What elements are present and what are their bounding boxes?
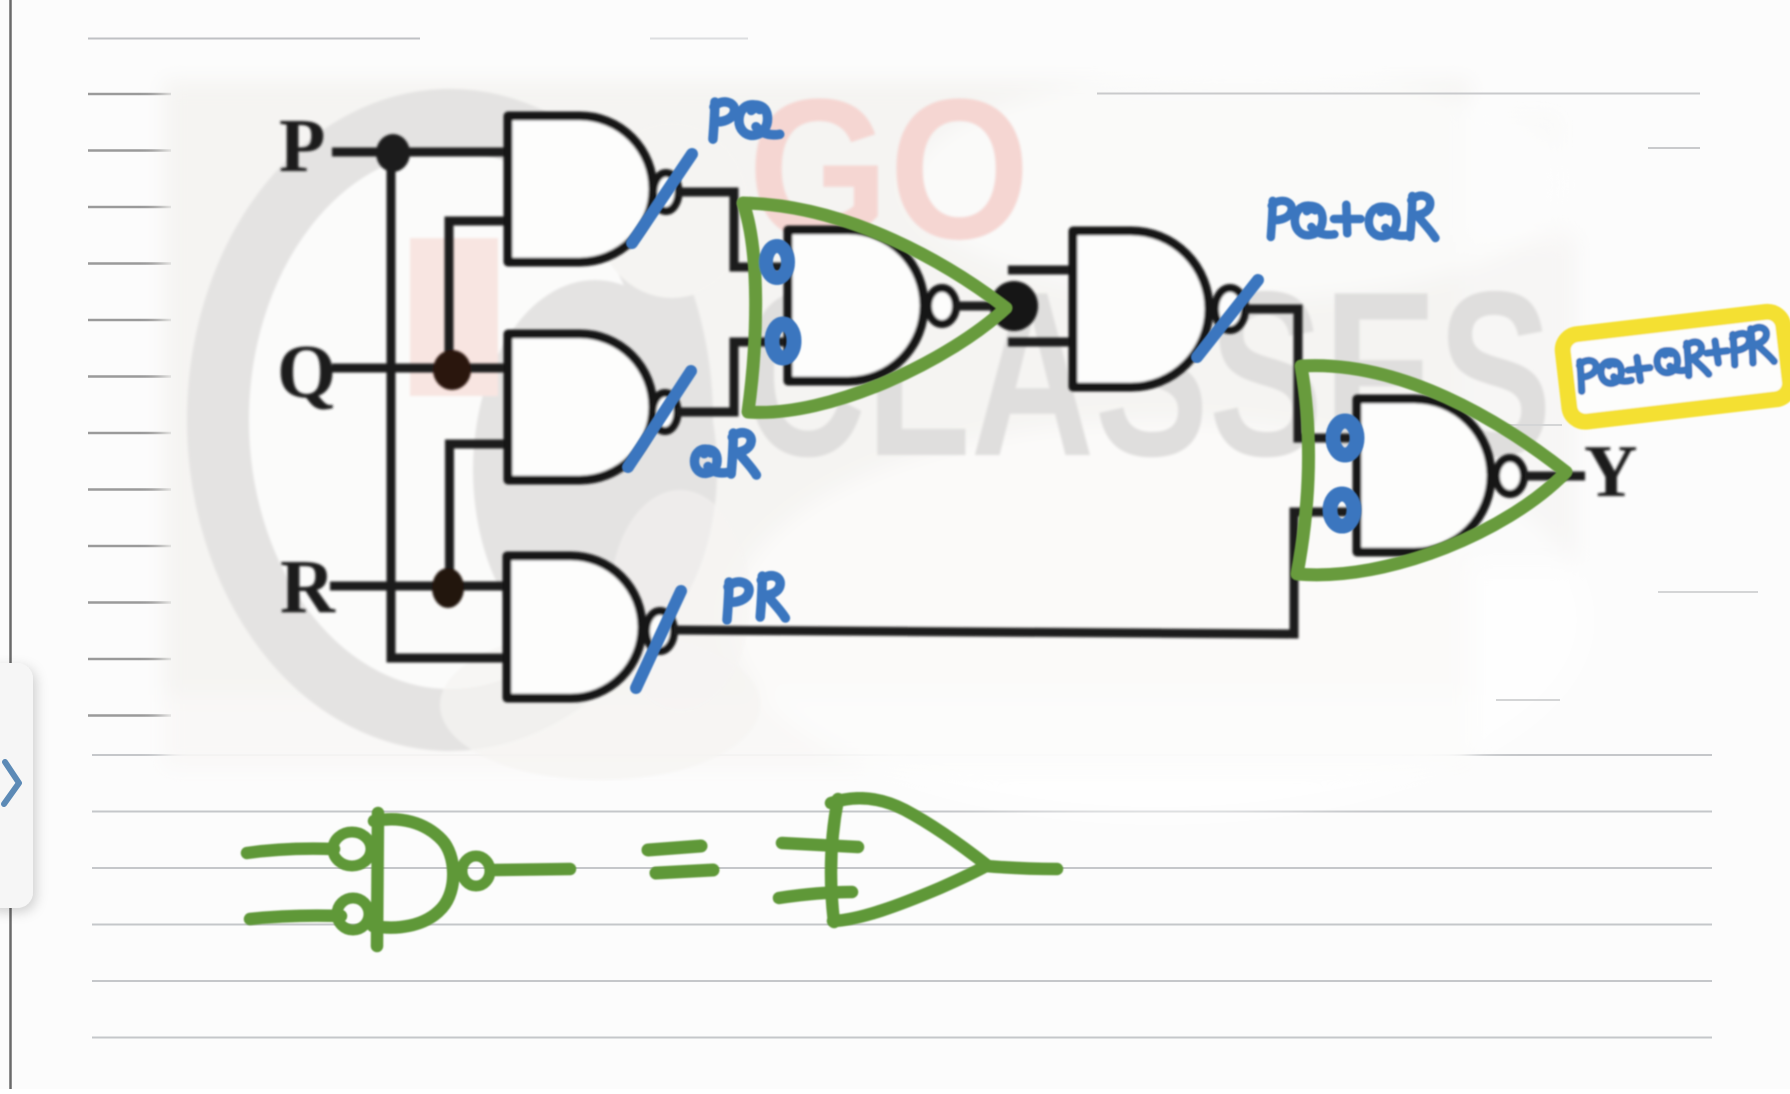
- wire junction to U5 lower input: [1008, 338, 1073, 347]
- svg-text:P: P: [279, 104, 325, 188]
- wire input Q: [332, 364, 508, 373]
- nand gate U4 (second level): [788, 230, 924, 381]
- annotation blue dot U4 lower input: [772, 324, 794, 358]
- nand gate U1 (P NAND Q): [508, 116, 653, 262]
- node R junction: [432, 568, 464, 608]
- annotation blue dot U6 upper input: [1333, 421, 1357, 455]
- svg-text:Y: Y: [1584, 431, 1637, 513]
- watermark logo center blob: [473, 280, 717, 660]
- page left edge line: [9, 0, 12, 1089]
- nand gate U3 (P NAND R): [507, 556, 642, 698]
- annotation blue slash on U1 bubble: [632, 154, 692, 243]
- wire junction to U5 upper input: [1008, 266, 1073, 275]
- scanned photo background: [163, 70, 1590, 820]
- wire Q junction up to U1 lower input: [449, 221, 508, 368]
- annotation blue slash on U3 bubble: [636, 591, 681, 688]
- annotation blue slash on U5 bubble: [1197, 280, 1258, 357]
- annotation text PQ: [713, 102, 735, 139]
- wire R junction up to U2 lower input: [450, 444, 509, 586]
- wire U1 output to U4 upper input: [677, 192, 788, 267]
- nand gate U2 (Q NAND R): [508, 334, 653, 480]
- svg-text:R: R: [280, 545, 336, 629]
- annotation blue dot U4 upper input: [766, 246, 788, 278]
- annotation text QR: [695, 449, 727, 473]
- node P junction: [376, 134, 410, 172]
- annotation blue slash on U2 bubble: [628, 371, 691, 467]
- wire U6 output to Y: [1525, 472, 1585, 481]
- nand gate U6 (output gate): [1357, 399, 1491, 552]
- annotation green loop around U4: [743, 203, 1006, 412]
- annotation text PQ+QR: [1271, 201, 1292, 237]
- wire U3 output PR to U6 lower input: [674, 512, 1357, 634]
- wire U2 output to U4 lower input: [677, 342, 788, 412]
- sketch equivalent NAND with inverted inputs: [247, 813, 570, 946]
- annotation green loop around U6: [1297, 366, 1566, 575]
- sketch equals sign: [648, 846, 713, 873]
- sidebar toggle card: [0, 663, 33, 908]
- annotation text PR: [727, 582, 749, 620]
- sketch OR gate: [779, 798, 1057, 922]
- sidebar toggle chevron: [4, 762, 19, 804]
- wire input P: [332, 148, 508, 157]
- annotation blue dot U6 lower input: [1330, 494, 1354, 526]
- faint ruled fragments over photo: [1097, 94, 1700, 149]
- wire P vertical to U3 lower input: [391, 155, 507, 658]
- nand gate U5 (inverter): [1073, 231, 1209, 387]
- wire U4 bubble to junction dot: [955, 302, 1013, 311]
- wire input R: [330, 582, 507, 591]
- wire U5 output down to U6 upper input: [1245, 309, 1357, 438]
- node U4 output junction dot: [990, 281, 1038, 331]
- left margin tick dashes: [88, 94, 171, 716]
- watermark logo pink bar: [410, 238, 498, 396]
- svg-text:Q: Q: [277, 330, 336, 414]
- annotation text PQ+QR+PR: [1577, 326, 1775, 391]
- annotation yellow highlight box: [1561, 310, 1790, 423]
- node Q junction: [433, 350, 471, 390]
- watermark logo ring interior: [245, 148, 655, 692]
- watermark logo ring: [218, 120, 682, 720]
